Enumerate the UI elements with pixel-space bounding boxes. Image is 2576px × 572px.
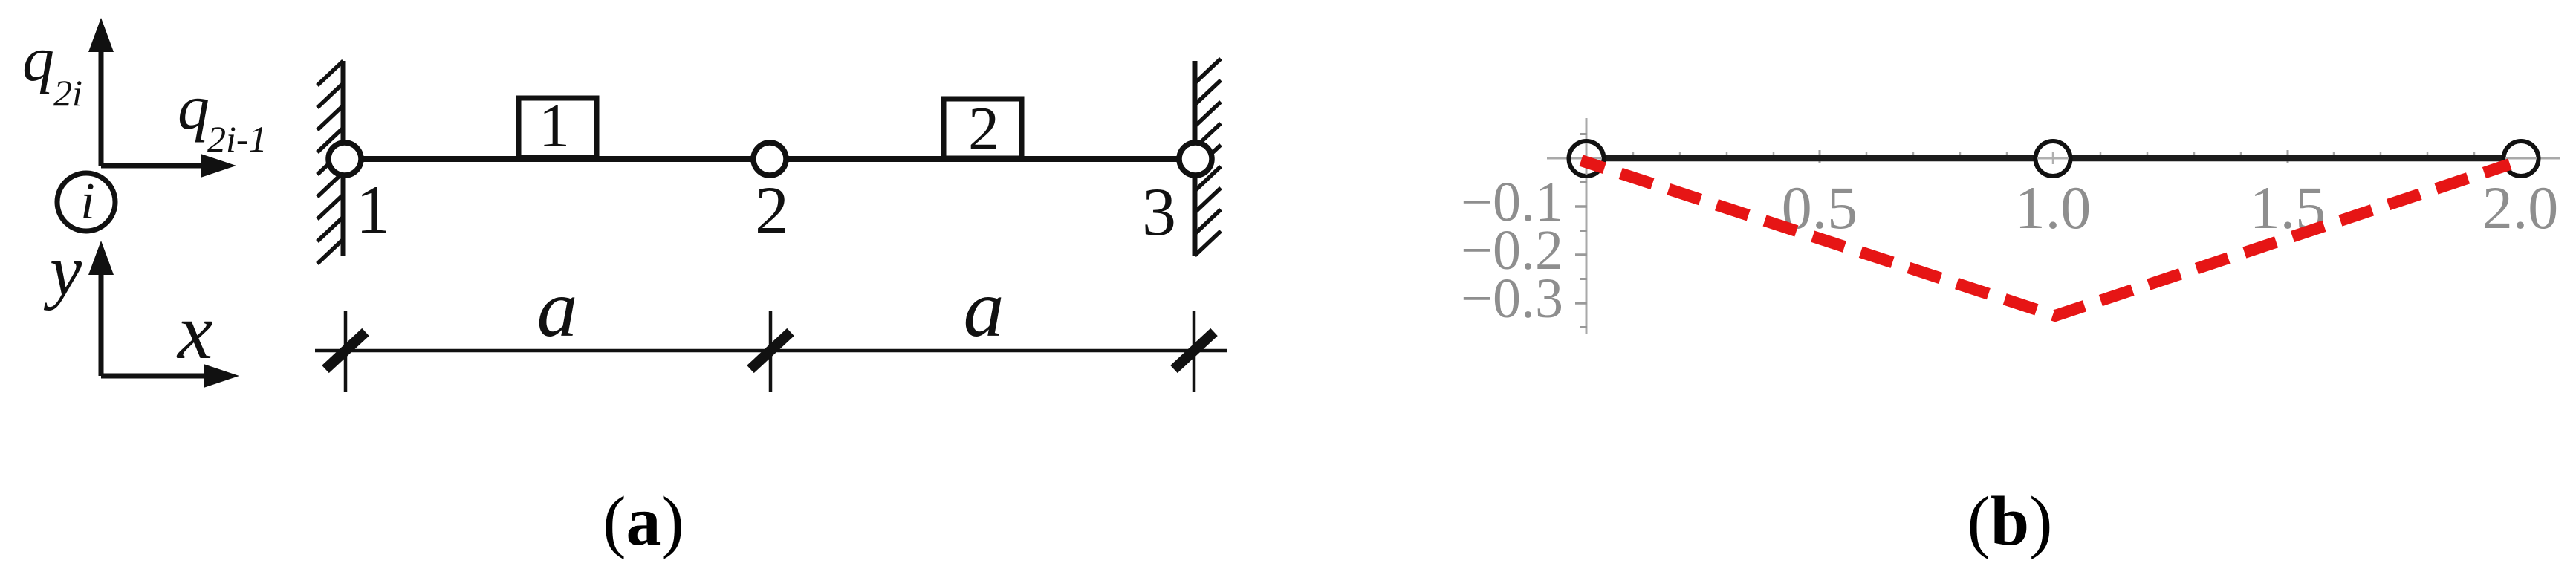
right wall hatching — [1195, 59, 1221, 256]
plot y-axis minor ticks — [1580, 134, 1587, 328]
deformed shape red dashed line — [1581, 160, 2510, 316]
dimension tick at node 2 — [750, 311, 791, 392]
svg-text:a: a — [537, 263, 578, 354]
svg-text:−0.3: −0.3 — [1461, 267, 1563, 330]
axis q2i-1 horizontal arrow — [101, 154, 236, 178]
label q2i — [22, 23, 82, 114]
svg-text:(a): (a) — [603, 483, 684, 560]
plot y-axis major ticks — [1575, 207, 1587, 303]
plot x-axis major ticks — [1820, 150, 2521, 163]
gray axis segment through circle at 0 — [1571, 143, 1602, 175]
undeformed beam thick line — [1606, 155, 2502, 162]
svg-text:2i: 2i — [53, 72, 82, 114]
svg-text:1: 1 — [539, 91, 570, 160]
plot node circle at x=0 — [1569, 141, 1604, 176]
plot x-axis minor ticks — [1633, 152, 2474, 161]
node symbol circled i — [57, 173, 115, 231]
gray axis segment through circle at 1.0 — [2037, 152, 2069, 164]
svg-text:2: 2 — [968, 94, 999, 163]
svg-text:a: a — [964, 263, 1005, 354]
svg-text:q: q — [22, 23, 54, 94]
plot x-axis line — [1547, 157, 2560, 160]
plot node circle at x=2.0 — [2504, 141, 2539, 176]
dimension tick at node 3 — [1174, 311, 1214, 392]
axis y arrow — [88, 241, 114, 376]
element 1 box — [519, 91, 597, 160]
left wall line — [341, 61, 346, 256]
svg-text:2i-1: 2i-1 — [207, 118, 267, 160]
svg-text:x: x — [176, 288, 213, 376]
svg-text:q: q — [178, 71, 210, 143]
node 1 hinge circle — [328, 143, 361, 175]
plot y-axis line — [1586, 118, 1588, 334]
svg-text:1.0: 1.0 — [2015, 174, 2092, 241]
plot node circle at x=1.0 — [2036, 141, 2071, 176]
svg-text:(b): (b) — [1967, 483, 2053, 560]
label q2i-1 — [178, 71, 267, 160]
svg-text:2.0: 2.0 — [2482, 174, 2559, 241]
axis x arrow — [101, 364, 239, 388]
gray axis segment through circle at 2.0 — [2505, 157, 2537, 160]
svg-text:2: 2 — [755, 172, 789, 248]
svg-text:1: 1 — [356, 172, 390, 247]
node 3 hinge circle — [1179, 143, 1212, 175]
node 2 hinge circle — [753, 143, 786, 175]
axis q2i vertical arrow — [88, 18, 114, 166]
right wall line — [1193, 61, 1198, 256]
element 2 box — [944, 94, 1022, 163]
dimension line — [315, 349, 1227, 353]
svg-text:i: i — [80, 173, 94, 230]
dimension tick at node 1 — [325, 311, 366, 392]
svg-text:3: 3 — [1142, 174, 1176, 250]
left wall hatching — [317, 61, 343, 264]
beam line node1 to node3 — [343, 156, 1195, 162]
